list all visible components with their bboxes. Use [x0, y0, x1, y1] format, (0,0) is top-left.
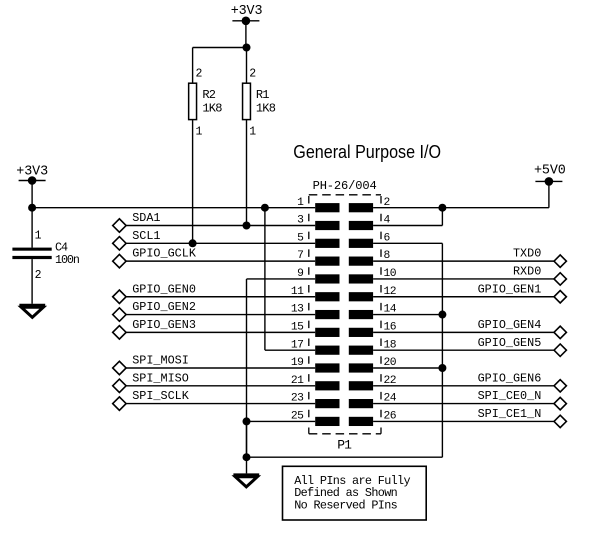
capacitor C4	[12, 208, 78, 304]
svg-text:2: 2	[196, 67, 203, 80]
svg-text:P1: P1	[337, 437, 352, 452]
label SPI_MISO	[132, 371, 189, 385]
svg-text:6: 6	[384, 232, 391, 244]
port diamond GPIO_GCLK	[113, 254, 126, 267]
port diamond SPI_MISO	[113, 379, 126, 392]
port diamond SPI_MOSI	[113, 361, 126, 374]
pin 17 pad	[291, 339, 340, 355]
svg-text:GPIO_GCLK: GPIO_GCLK	[132, 247, 197, 261]
title General Purpose I/O	[293, 141, 441, 162]
svg-text:TXD0: TXD0	[513, 247, 541, 261]
label GPIO_GCLK	[132, 247, 197, 261]
wire pin 2 to +5V0	[373, 207, 549, 209]
svg-text:GPIO_GEN5: GPIO_GEN5	[478, 336, 542, 350]
label SDA1	[132, 211, 160, 225]
svg-text:GPIO_GEN4: GPIO_GEN4	[478, 318, 542, 332]
ground (left)	[19, 306, 45, 318]
wire GPIO_GEN1 (pin 12)	[373, 296, 554, 298]
svg-text:GPIO_GEN0: GPIO_GEN0	[132, 282, 196, 296]
port diamond GPIO_GEN6	[554, 380, 566, 392]
wire GPIO_GEN2 (pin 13)	[126, 314, 315, 316]
wire SPI_SCLK (pin 23)	[126, 403, 315, 405]
wire SPI_CE0_N (pin 24)	[373, 403, 554, 405]
resistor R2	[189, 48, 223, 244]
wire +3V3 left stem	[31, 181, 33, 208]
pin 6 pad	[349, 232, 391, 248]
node pin14 junction	[438, 311, 446, 319]
power +5V0	[534, 164, 566, 186]
wire R2 top link	[193, 47, 247, 49]
svg-text:R1: R1	[256, 88, 269, 102]
label GPIO_GEN2	[132, 300, 196, 314]
svg-text:General Purpose I/O: General Purpose I/O	[293, 141, 441, 162]
pin 3 pad	[297, 215, 339, 231]
svg-text:GPIO_GEN1: GPIO_GEN1	[478, 282, 542, 296]
node junction R1/R2 top	[243, 44, 251, 52]
svg-text:1K8: 1K8	[202, 102, 222, 116]
wire GPIO_GEN5 (pin 18)	[373, 349, 554, 351]
port diamond SPI_CE1_N	[554, 415, 566, 427]
node pin25 junction	[243, 417, 251, 425]
port diamond GPIO_GEN5	[554, 344, 566, 356]
svg-text:SPI_CE0_N: SPI_CE0_N	[478, 389, 542, 403]
wire 3V3 rail to pin 1	[32, 207, 315, 209]
pin 2 pad	[349, 197, 390, 213]
wire pin 25 ground	[247, 420, 316, 422]
wire ground stem (bottom)	[246, 421, 248, 473]
label TXD0	[513, 247, 541, 261]
node 3V3 rail junction	[28, 204, 36, 212]
wire SPI_MOSI (pin 19)	[126, 367, 315, 369]
pin 4 pad	[349, 215, 391, 231]
pin 23 pad	[291, 393, 340, 409]
pin 21 pad	[291, 375, 340, 391]
wire GPIO_GCLK (pin 7)	[126, 260, 315, 262]
wire pin 20 ground stub	[373, 367, 442, 369]
svg-text:1: 1	[297, 197, 304, 209]
svg-text:2: 2	[35, 269, 42, 282]
svg-text:SDA1: SDA1	[132, 211, 160, 225]
pin 9 pad	[297, 268, 339, 284]
pin 10 pad	[349, 268, 397, 284]
port diamond RXD0	[554, 273, 566, 285]
pin 25 pad	[291, 411, 340, 427]
wire RXD0 (pin 10)	[373, 278, 554, 280]
svg-text:No Reserved PIns: No Reserved PIns	[294, 498, 397, 512]
svg-text:+3V3: +3V3	[231, 4, 263, 19]
label SPI_SCLK	[132, 389, 190, 403]
wire SPI_CE1_N (pin 26)	[373, 420, 554, 422]
svg-text:1K8: 1K8	[256, 102, 276, 116]
svg-text:1: 1	[196, 125, 203, 138]
pin 1 pad	[297, 197, 339, 213]
port diamond GPIO_GEN4	[554, 326, 566, 338]
port diamond GPIO_GEN2	[113, 308, 126, 321]
svg-text:4: 4	[384, 215, 391, 227]
pin 18 pad	[349, 339, 397, 355]
svg-text:RXD0: RXD0	[513, 265, 541, 279]
power +3V3 (left)	[16, 165, 48, 185]
svg-text:SPI_MOSI: SPI_MOSI	[132, 354, 189, 368]
wire SPI_MISO (pin 21)	[126, 385, 315, 387]
port diamond SDA1	[113, 219, 126, 232]
label GPIO_GEN3	[132, 318, 196, 332]
wire pin 17 3V3 branch	[265, 208, 315, 350]
pin 12 pad	[349, 286, 396, 302]
svg-text:SCL1: SCL1	[132, 229, 160, 243]
label GPIO_GEN5	[478, 336, 542, 350]
svg-text:PH-26/004: PH-26/004	[313, 179, 377, 193]
label GPIO_GEN1	[478, 282, 542, 296]
svg-text:GPIO_GEN3: GPIO_GEN3	[132, 318, 196, 332]
label SCL1	[132, 229, 160, 243]
svg-text:1: 1	[35, 230, 42, 243]
resistor R1	[243, 48, 276, 226]
note box	[283, 466, 427, 520]
svg-text:GPIO_GEN2: GPIO_GEN2	[132, 300, 196, 314]
port diamond SPI_CE0_N	[554, 397, 566, 409]
label P1	[337, 437, 352, 452]
pin 16 pad	[349, 321, 397, 337]
pin 15 pad	[291, 321, 340, 337]
svg-text:SPI_SCLK: SPI_SCLK	[132, 389, 190, 403]
pin 20 pad	[349, 357, 397, 373]
port diamond GPIO_GEN1	[554, 291, 566, 303]
wire pin 14 ground stub	[373, 314, 442, 316]
label GPIO_GEN6	[478, 371, 542, 385]
wire SCL1 (pin 5)	[126, 242, 315, 244]
pin 11 pad	[291, 286, 340, 302]
node pin20 junction	[438, 364, 446, 372]
wire pin 6 ground bus	[373, 243, 442, 457]
node R2-SCL1 junction	[189, 239, 197, 247]
wire TXD0 (pin 8)	[373, 260, 554, 262]
port diamond TXD0	[554, 255, 566, 267]
svg-text:SPI_MISO: SPI_MISO	[132, 371, 189, 385]
label SPI_MOSI	[132, 354, 189, 368]
label SPI_CE0_N	[478, 389, 542, 403]
label RXD0	[513, 265, 541, 279]
svg-text:1: 1	[249, 125, 256, 138]
wire GPIO_GEN6 (pin 22)	[373, 385, 554, 387]
svg-text:+3V3: +3V3	[16, 165, 48, 180]
svg-text:2: 2	[384, 197, 390, 209]
svg-text:+5V0: +5V0	[534, 164, 566, 179]
wire +3V3 stem (top)	[245, 21, 247, 48]
wire ground link	[247, 456, 443, 458]
label SPI_CE1_N	[478, 407, 542, 421]
pin 19 pad	[291, 357, 340, 373]
svg-text:R2: R2	[202, 88, 215, 102]
pin 24 pad	[349, 393, 397, 409]
wire pin 4 branch	[373, 208, 442, 226]
wire GPIO_GEN4 (pin 16)	[373, 331, 554, 333]
connector P1 header PH-26/004	[309, 179, 381, 434]
pin 14 pad	[349, 304, 397, 320]
port diamond SPI_SCLK	[113, 397, 126, 410]
node ground link junction	[243, 453, 251, 461]
wire +5V0 stem	[548, 181, 550, 207]
label GPIO_GEN0	[132, 282, 196, 296]
wire GPIO_GEN3 (pin 15)	[126, 331, 315, 333]
wire pin 9 ground branch	[247, 279, 316, 457]
pin 22 pad	[349, 375, 396, 391]
wire GPIO_GEN0 (pin 11)	[126, 296, 315, 298]
ground (bottom)	[233, 475, 259, 487]
pin 5 pad	[297, 232, 339, 248]
port diamond GPIO_GEN0	[113, 290, 126, 303]
svg-text:SPI_CE1_N: SPI_CE1_N	[478, 407, 542, 421]
wire SDA1 (pin 3)	[126, 225, 315, 227]
node R1-SDA1 junction	[243, 222, 251, 230]
node pin4-5V junction	[438, 204, 446, 212]
svg-text:100n: 100n	[55, 253, 79, 267]
port diamond GPIO_GEN3	[113, 326, 126, 339]
svg-text:GPIO_GEN6: GPIO_GEN6	[478, 371, 542, 385]
label GPIO_GEN4	[478, 318, 542, 332]
pin 7 pad	[297, 250, 339, 266]
power +3V3 (top)	[231, 4, 263, 25]
node pin1-pin17 branch junction	[261, 204, 269, 212]
pin 8 pad	[349, 250, 391, 266]
port diamond SCL1	[113, 237, 126, 250]
pin 26 pad	[349, 411, 397, 427]
pin 13 pad	[291, 304, 340, 320]
svg-text:2: 2	[249, 67, 256, 80]
svg-text:5: 5	[297, 232, 304, 244]
